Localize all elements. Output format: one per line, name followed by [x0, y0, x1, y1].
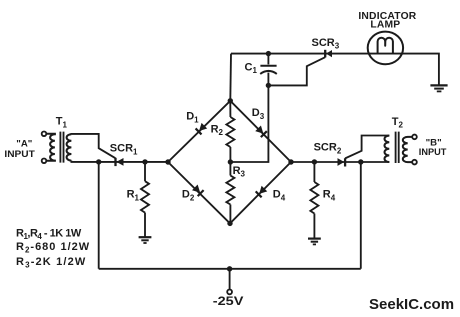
bridge edges (diamond): [168, 101, 291, 224]
resistor R4: [313, 162, 315, 182]
transformer T1 primary terminal top: [42, 132, 47, 137]
resistor R3: [229, 162, 231, 176]
node C1 bottom junction: [266, 83, 271, 88]
node R4 junction: [312, 159, 317, 164]
lamp filament: [378, 38, 393, 54]
svg-text:INPUT: INPUT: [419, 147, 447, 158]
transformer T1 core: [60, 132, 63, 163]
svg-text:"A": "A": [16, 138, 32, 149]
diode D3: [255, 125, 267, 137]
transformer T2 secondary winding: [384, 136, 389, 162]
ground (R1): [139, 237, 152, 243]
wire vertical from top-left corner down to bridge top vertex: [229, 54, 232, 101]
capacitor C1: [267, 54, 269, 65]
resistor R2: [229, 101, 231, 117]
diode D4: [256, 186, 268, 198]
resistor R1: [144, 162, 146, 181]
transformer T2 primary terminal bottom: [412, 160, 417, 165]
SCR2: [338, 158, 346, 166]
terminal -25V: [229, 269, 231, 290]
wire T1 secondary top to SCR1 gate: [71, 134, 115, 158]
node bridge top vertex: [228, 98, 233, 103]
transformer T1 secondary winding: [67, 134, 72, 160]
diode D2: [192, 184, 204, 196]
node -25V junction: [227, 266, 232, 271]
node bridge bottom vertex: [227, 221, 232, 226]
svg-text:-25V: -25V: [213, 296, 244, 308]
node T2 bottom junction: [358, 159, 363, 164]
node bridge right vertex: [288, 159, 293, 164]
svg-text:INPUT: INPUT: [4, 149, 35, 160]
wire T1 node down to bottom rail: [98, 162, 100, 269]
indicator lamp: [368, 32, 403, 65]
node bridge center (R2/R3 junction): [228, 159, 233, 164]
wire bottom rail: [99, 268, 361, 270]
wire main rail right of bridge to T2: [291, 161, 389, 163]
SCR1: [116, 158, 124, 166]
wire T2 node down to bottom rail: [360, 162, 362, 269]
wire T1 secondary bottom to main rail: [71, 161, 168, 162]
node bridge left vertex: [165, 159, 170, 164]
wire SCR2 gate to T2 secondary top: [345, 136, 389, 159]
ground (lamp): [430, 85, 447, 91]
node R1 junction: [142, 159, 147, 164]
svg-text:LAMP: LAMP: [370, 19, 400, 30]
node T1 bottom junction: [96, 159, 101, 164]
SCR3: [325, 50, 332, 58]
svg-text:SeekIC.com: SeekIC.com: [369, 296, 454, 313]
node C1 top junction: [266, 51, 271, 56]
wire top rail from left corner through SCR3 and lamp to right corner: [231, 54, 439, 86]
transformer T2 core: [396, 132, 399, 163]
wire SCR3 gate from C1 bottom node: [268, 57, 325, 85]
diode D1: [196, 123, 208, 135]
wire bridge center node to C1 bottom: [230, 85, 268, 162]
ground (R4): [308, 239, 321, 245]
transformer T2 primary winding: [403, 137, 412, 162]
transformer T2 primary terminal top: [412, 135, 417, 140]
transformer T1 primary terminal bottom: [42, 159, 47, 164]
transformer T1 primary winding: [46, 134, 55, 161]
